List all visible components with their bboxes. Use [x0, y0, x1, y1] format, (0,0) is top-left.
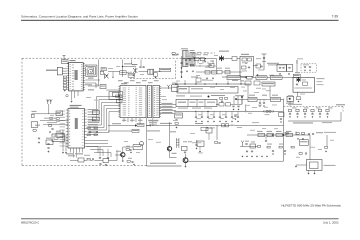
junction dots top chain	[189, 58, 190, 59]
parts in switch box	[296, 83, 298, 86]
labels below U0401	[66, 153, 73, 154]
parts in option box	[304, 66, 306, 69]
dashed filter boundary	[284, 107, 344, 113]
bottom band boxes	[245, 81, 251, 85]
labels inside bias box	[178, 102, 186, 103]
wires right of U0201 lower	[85, 79, 100, 81]
jack side parts	[297, 97, 301, 100]
parts near Q0421	[126, 149, 129, 151]
label left wire	[32, 111, 37, 112]
label box RF POWER SET	[159, 68, 171, 71]
labels row2 bottom right	[267, 143, 272, 146]
grounds cap pairs	[279, 73, 281, 75]
control wire row1	[108, 125, 135, 127]
wires U0201 bottom	[72, 91, 79, 100]
junction dot bias-feed	[245, 111, 247, 113]
parts inside driver module	[242, 58, 247, 61]
driver module U0451	[240, 56, 253, 76]
extra labels top band	[186, 55, 190, 58]
input parts left of FL0201	[172, 53, 175, 55]
boxes row y70.5	[205, 71, 210, 75]
wire into driver module	[237, 57, 240, 59]
labels shunt row	[198, 113, 202, 116]
row y146.5 parts	[245, 143, 247, 146]
label below wire y86	[88, 89, 94, 90]
label TX INJ right	[252, 121, 259, 124]
dark junctions cluster	[235, 98, 237, 100]
connector J0201	[57, 67, 62, 75]
parts at x327	[325, 147, 328, 149]
striped box stripline 1	[227, 76, 241, 80]
caps top chain	[204, 60, 206, 63]
wire vertical x98.6	[98, 60, 100, 87]
series row y135	[247, 134, 310, 136]
mid wire y72	[196, 71, 216, 73]
labels above lowpass	[288, 104, 302, 105]
box under feed	[197, 141, 204, 147]
parts on TX INJ line	[222, 124, 225, 127]
bottom band labels	[240, 80, 244, 81]
label box above Q0201	[101, 68, 106, 71]
label A+	[267, 63, 279, 64]
labels left low	[35, 125, 40, 126]
label box above switch	[293, 74, 300, 77]
wires below connectors	[124, 118, 153, 166]
labels lowpass row	[292, 107, 297, 110]
staircase bus wires	[88, 97, 120, 133]
bottom band striped	[262, 82, 275, 86]
label driver module	[241, 54, 249, 55]
bias box above Q0421	[133, 145, 142, 150]
inter-row verticals top band	[198, 60, 213, 64]
gate bias line y84	[175, 83, 250, 85]
supply tee A+	[262, 54, 267, 70]
wire y71.6	[139, 71, 148, 73]
parts left under feed	[175, 119, 177, 122]
return line y161.6	[188, 160, 284, 162]
PA filter box A	[248, 98, 257, 102]
labels mid band	[205, 66, 209, 69]
bias parts above Q0441	[182, 146, 188, 150]
vertical bus x283.5	[283, 99, 285, 162]
parts at TXINJ drop	[215, 142, 218, 144]
labels bottom row	[84, 155, 90, 156]
labels under output line	[293, 122, 313, 123]
top small caps	[185, 59, 187, 62]
labels on feed line	[196, 111, 205, 112]
box node mid right	[113, 92, 119, 96]
boxes left low second	[56, 133, 63, 138]
connector J0401	[120, 85, 146, 117]
cluster right of driver module	[256, 64, 261, 68]
verticals left low	[62, 130, 64, 151]
label Q0440	[172, 153, 177, 154]
label above inner dashed corner	[172, 54, 177, 57]
labels right of switch box	[317, 77, 325, 80]
wires PA row	[236, 99, 248, 101]
wire switch to filter	[289, 101, 291, 106]
ground Q0204	[133, 74, 135, 76]
wires Q0441	[185, 154, 187, 158]
wire left exit y86	[88, 85, 99, 87]
wire top row y58.5	[182, 58, 216, 60]
striped box 50ohm B	[271, 76, 283, 80]
junction blob above bias box	[208, 96, 210, 98]
box node top mid	[100, 85, 106, 89]
wire into label box	[63, 55, 65, 59]
parts under feed right	[234, 115, 236, 118]
labels above filter row	[197, 51, 201, 54]
vertical x297 upper	[296, 60, 298, 73]
wires right of J0403	[160, 88, 177, 114]
wire y113.8 left	[32, 113, 61, 115]
antenna stub pair	[46, 100, 52, 105]
wires U0401 bottom	[71, 148, 83, 158]
shunt caps PA row	[259, 100, 261, 102]
label J0401	[121, 83, 127, 84]
labels inter-stage	[256, 87, 261, 90]
label right of x122 wire	[124, 63, 132, 64]
label coil	[170, 131, 176, 132]
verticals into bottom row	[99, 147, 101, 157]
striped box 50ohm A	[256, 76, 267, 80]
capacitor rail x181.5	[180, 62, 182, 65]
wire y146.5	[240, 146, 258, 148]
bias cluster mid	[220, 98, 223, 100]
label right main row	[295, 72, 300, 73]
caps row2 bottom right	[272, 150, 274, 153]
labels row y146.5	[245, 140, 249, 143]
shield boundary dashed outline	[22, 53, 215, 166]
junction dot Q0201	[106, 75, 107, 76]
label y122.5	[47, 122, 57, 123]
ic U0401	[68, 109, 85, 149]
transistor Q0201	[105, 74, 109, 79]
label box 2	[128, 73, 135, 77]
labels top chain	[196, 53, 201, 56]
box left3 of U0401	[52, 134, 65, 142]
wires main row y77.5	[241, 77, 247, 79]
wire Q0421 collector link	[123, 146, 133, 148]
pin net labels right of U0401	[88, 108, 99, 111]
transistor Q0204	[133, 68, 137, 74]
filter FL0203	[148, 69, 154, 74]
box mid x209	[209, 64, 214, 68]
label not placed	[324, 165, 336, 166]
cluster left2 of U0401	[49, 125, 52, 127]
cluster under top row	[186, 63, 188, 66]
PA filter box B	[271, 98, 281, 102]
output line y121	[288, 120, 341, 122]
box after Q0410	[232, 57, 237, 61]
shunt capacitors feed line	[195, 111, 197, 116]
branch down x113	[112, 72, 114, 77]
label row y132.5 right	[316, 132, 323, 133]
wire between label boxes	[126, 72, 128, 74]
riser from bottom row	[116, 150, 118, 161]
connector J0402	[147, 85, 151, 117]
box R0451 right of U0401	[92, 111, 99, 115]
wire vertical x122	[121, 60, 123, 78]
labels band y76-82	[191, 77, 198, 78]
pin name column left of U0401	[60, 110, 66, 113]
feedback rectangle	[109, 92, 123, 100]
label box above U0201	[62, 60, 69, 64]
antenna symbol node	[167, 85, 170, 89]
labels PA row	[249, 95, 255, 96]
label box PWR CNTL	[120, 71, 126, 75]
junction dots on y84	[184, 83, 185, 84]
labels inside driver module	[242, 61, 248, 64]
parts above thermistor box	[299, 153, 302, 155]
coil vertical pair	[176, 138, 179, 148]
pin label row above J0401	[118, 80, 123, 81]
ground left column	[64, 90, 66, 92]
cluster left low	[31, 122, 38, 128]
label above option box	[297, 57, 303, 60]
svg-text:Schematics, Component Location: Schematics, Component Location Diagrams,…	[21, 14, 138, 18]
cap pair box 2	[287, 65, 293, 72]
labels above series row	[257, 131, 263, 132]
TX INJ line	[147, 124, 284, 126]
label box row1	[137, 123, 144, 126]
net labels right of J0403	[162, 103, 173, 104]
wide label row right	[268, 64, 286, 65]
corner wires to bottom row	[87, 147, 112, 158]
main row small connector	[247, 76, 253, 79]
capacitors left low of U0401	[47, 143, 49, 146]
transistor Q0441	[183, 158, 188, 163]
cluster mid under feed	[206, 128, 212, 133]
box R0452 right of U0401	[92, 117, 99, 121]
grounds row y132.5 right	[297, 138, 299, 140]
wire after Q0410	[224, 57, 232, 59]
dashed option box	[301, 64, 317, 72]
TX INJ labels	[160, 123, 172, 124]
wire FL0203 to label box	[154, 71, 161, 73]
label TX INJ row	[147, 130, 160, 131]
vertical from dashed top x141	[140, 60, 142, 67]
wire left of thermistor box	[296, 164, 307, 166]
scattered designator labels	[210, 86, 215, 89]
wires from U0401 right	[87, 141, 113, 147]
top small boxes	[194, 57, 199, 61]
label y118	[44, 118, 57, 119]
box node lower right	[117, 99, 123, 103]
wire y124.8 left	[43, 124, 68, 126]
harmonic filter FL0201	[183, 51, 189, 67]
transistor Q0421	[121, 153, 125, 157]
box at wire start	[32, 114, 35, 118]
resistors left of U0401	[50, 118, 53, 120]
antenna switch box	[293, 78, 315, 93]
boxes on mid wire	[217, 70, 222, 74]
label box row2	[132, 129, 139, 132]
bottom boundary solid segment	[147, 165, 182, 167]
stub drop wire	[48, 104, 50, 114]
junction dots feed line	[195, 111, 196, 112]
labels above bias box	[176, 95, 185, 96]
capacitor C0208	[139, 66, 141, 69]
vertical TXINJ drop	[216, 125, 218, 140]
label above box	[172, 83, 178, 84]
arrow junction row1	[135, 124, 137, 126]
vertical x327	[326, 135, 328, 146]
series boxes y135	[258, 133, 265, 136]
resistors row2 bottom right	[267, 146, 270, 148]
vertical x205	[204, 59, 206, 61]
inline connector symbol	[264, 110, 274, 113]
vertical x310 to thermistor	[309, 135, 311, 160]
grounds y77	[206, 77, 208, 79]
vertical bottom band to PA row B	[269, 86, 271, 98]
labels below connectors	[122, 120, 127, 121]
footer rule	[21, 218, 339, 219]
labels above filters	[181, 48, 188, 49]
wire y120.5 left	[40, 120, 68, 122]
box band y78	[196, 78, 201, 82]
wire y70 right of driver	[258, 69, 264, 71]
cap pair box 1	[277, 65, 286, 72]
component column left of U0201	[63, 76, 66, 78]
labels above U0401	[70, 105, 82, 106]
labels top of bus area	[85, 84, 92, 85]
labels mid wire	[217, 67, 222, 70]
antenna jack J0450	[287, 96, 294, 101]
thermistor box inner	[310, 162, 319, 169]
feed line y111.4	[174, 110, 284, 112]
label J0450	[286, 103, 294, 104]
header rule	[21, 20, 339, 21]
dots y66	[199, 65, 202, 68]
svg-text:7-39: 7-39	[332, 15, 339, 19]
lowpass shunt groups	[288, 109, 291, 111]
vertical bottom band to PA row A	[247, 85, 249, 98]
wire switch to jack	[297, 92, 299, 96]
transistor Q0422 oval	[140, 141, 144, 145]
wires Q0421	[115, 154, 121, 156]
grounds below thermistor	[308, 173, 310, 175]
vertical bias to feed	[245, 104, 247, 111]
label U0201	[70, 60, 76, 61]
control wire row2	[108, 130, 132, 132]
svg-text:July 1, 2002: July 1, 2002	[323, 220, 339, 224]
bias row right wire	[216, 103, 219, 105]
harmonic filter FL0202	[190, 53, 195, 67]
svg-text:6881076C20-C: 6881076C20-C	[21, 220, 39, 224]
antenna Y bottom left	[241, 141, 244, 147]
label TX RF LINE	[46, 70, 57, 71]
box left pin 1 of U0401	[56, 111, 63, 116]
vertical x196.5 upper	[196, 140, 198, 144]
wire y71.5 right	[108, 71, 120, 73]
ic U0201	[69, 63, 84, 91]
labels above Q0441	[183, 140, 187, 143]
wire y66 top band	[196, 65, 216, 67]
label Q0410	[219, 51, 229, 52]
label box W0402	[175, 113, 183, 118]
wire y90 to B1	[106, 89, 120, 91]
labels below bias box	[178, 108, 188, 109]
cluster right of U0401	[87, 127, 90, 129]
bias network long box	[176, 99, 217, 106]
label L0201	[88, 78, 94, 79]
gate bias verticals	[184, 80, 186, 84]
bias row right boxes	[219, 103, 224, 106]
bottom shield row parts	[68, 155, 75, 156]
box on x310	[299, 140, 308, 146]
mid caps bottom right	[246, 150, 248, 153]
wires Q0440	[169, 122, 171, 147]
branch verticals from series row	[265, 135, 267, 140]
microstrip box W0401	[177, 87, 238, 94]
wires J0201 to U0201	[62, 69, 66, 74]
box under feed far right	[279, 113, 285, 117]
component box right of J0403	[172, 85, 178, 92]
gnd near parts Q0421	[130, 152, 132, 154]
ground row bottom right	[242, 156, 244, 158]
label on bottom segment	[150, 163, 176, 164]
ground below U0201	[71, 101, 73, 103]
corner join x341	[340, 112, 342, 121]
transistor Q0455 bowtie	[297, 78, 301, 82]
wire driver module out	[253, 65, 258, 67]
row y132.5 right parts	[285, 132, 288, 134]
wire into option box	[296, 60, 298, 64]
thermistor box outer	[307, 160, 323, 171]
vertical x216.5	[215, 59, 217, 71]
amplifier stage Q0410	[219, 56, 223, 60]
inductor L0201 spiral	[85, 65, 97, 76]
labels row1	[112, 123, 121, 124]
parts inside feedback loop	[116, 95, 119, 97]
cluster verticals	[234, 96, 242, 104]
label VCTRL	[132, 64, 138, 65]
labels near Q0421	[116, 150, 121, 153]
tick marks row1	[146, 124, 151, 126]
wire top y66.7	[122, 66, 136, 68]
bias row right caps	[232, 105, 234, 108]
label block left of x146	[149, 120, 158, 121]
connector J0403	[153, 85, 160, 117]
svg-text:HLF6577D 800 MHz 25-Watt PA Sc: HLF6577D 800 MHz 25-Watt PA Schematic	[281, 204, 341, 208]
vertical from dashed top x131	[131, 60, 133, 65]
inner dashed boundary segment	[130, 60, 176, 79]
labels near x230 bottom	[230, 124, 235, 127]
vertical left rail x181.5	[181, 56, 183, 78]
pad circle below U0201	[66, 95, 68, 97]
labels right of driver	[256, 57, 261, 60]
box below FL0203	[154, 73, 158, 76]
transistor Q0440	[167, 147, 171, 151]
wire spiral to U0201	[85, 65, 87, 67]
junction diamonds y135	[272, 134, 274, 136]
capacitor C0204	[100, 71, 104, 74]
box below TX INJ line	[201, 127, 208, 131]
ground driver module	[245, 77, 247, 79]
